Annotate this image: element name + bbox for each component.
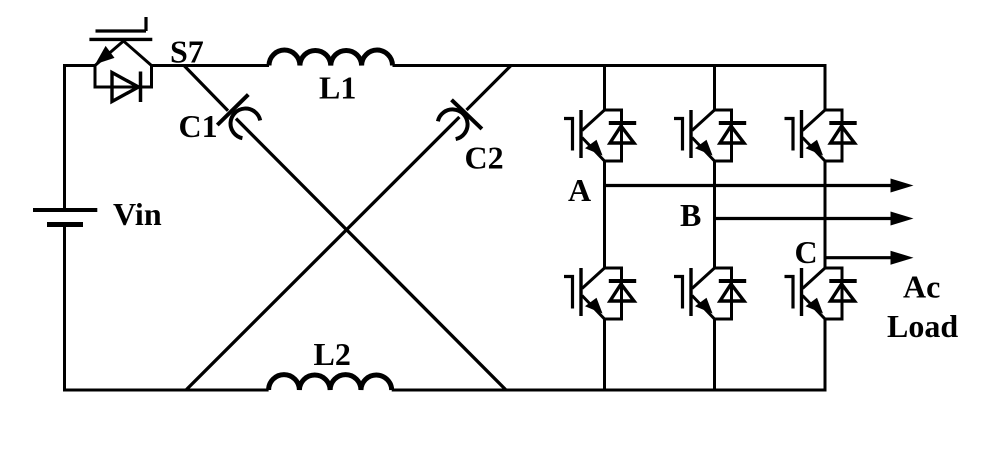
svg-text:B: B <box>680 197 701 233</box>
switch S7 channel bar <box>89 38 152 41</box>
wire bottom rail right <box>392 389 826 392</box>
IGBT S4 collector lead <box>692 268 715 289</box>
diode of S2 triangle <box>610 284 634 301</box>
wire bridge leg 1 <box>603 64 606 392</box>
wire diagonal D2 upper segment (top rail to C2) <box>467 66 512 111</box>
diode of S2 cathode bar <box>609 279 636 283</box>
wire bottom rail left <box>63 389 269 392</box>
arrowhead phase B <box>891 212 914 226</box>
wire bridge leg 2 <box>713 64 716 392</box>
svg-text:A: A <box>568 172 591 208</box>
IGBT S6 emitter arrow <box>806 298 824 314</box>
IGBT S4 body wires (jog to diode branch) <box>715 268 732 319</box>
svg-text:Vin: Vin <box>113 196 162 232</box>
IGBT S2 channel bar <box>579 268 582 316</box>
arrowhead phase C <box>891 251 914 265</box>
diode of S4 triangle <box>720 284 744 301</box>
switch S7 diode cathode bar <box>139 72 143 103</box>
IGBT S4 emitter lead <box>692 296 715 320</box>
diode of S5 triangle <box>831 126 855 143</box>
capacitor C2 curved plate <box>438 109 468 139</box>
wire top rail L1 to bridge <box>393 64 826 67</box>
IGBT S6 collector lead <box>803 268 826 289</box>
diode of S4 cathode bar <box>719 279 746 283</box>
battery Vin short plate <box>47 222 83 227</box>
wire top rail S7 to L1 <box>152 64 270 67</box>
IGBT S1 emitter arrow <box>585 140 603 156</box>
wire diagonal D2 lower segment (C2 to bottom rail) <box>186 117 459 390</box>
IGBT S5 gate lead and bar <box>785 119 794 151</box>
capacitor C2 straight plate <box>452 100 482 129</box>
capacitor C1 straight plate <box>217 95 248 125</box>
arrowhead phase A <box>891 179 914 193</box>
switch S7 emitter arrow <box>95 46 114 64</box>
wire top rail left stub <box>64 64 95 67</box>
IGBT S5 channel bar <box>800 110 803 158</box>
IGBT S3 emitter lead <box>692 138 715 162</box>
inductor L1 <box>269 50 393 65</box>
wire phase A output <box>605 184 893 187</box>
diode of S3 cathode bar <box>719 121 746 125</box>
switch S7 tent (collector/emitter leads) <box>95 41 152 66</box>
IGBT S3 channel bar <box>689 110 692 158</box>
svg-text:L2: L2 <box>314 336 351 372</box>
svg-text:C2: C2 <box>465 140 504 176</box>
IGBT S1 channel bar <box>579 110 582 158</box>
wire left vertical lower (Vin -) <box>63 227 66 392</box>
diode of S6 triangle <box>831 284 855 301</box>
wire diagonal D1 upper segment (S7 node to C1) <box>184 66 228 111</box>
IGBT S4 channel bar <box>689 268 692 316</box>
battery Vin long plate <box>33 208 97 212</box>
IGBT S2 emitter lead <box>582 296 605 320</box>
IGBT S5 emitter arrow <box>806 140 824 156</box>
switch S7 diode triangle <box>112 73 139 102</box>
IGBT S3 collector lead <box>692 110 715 131</box>
IGBT S1 emitter lead <box>582 138 605 162</box>
wire bridge leg 3 <box>824 64 827 392</box>
IGBT S2 body wires (jog to diode branch) <box>605 268 622 319</box>
IGBT S4 gate lead and bar <box>674 277 683 309</box>
wire phase C output <box>825 256 892 259</box>
IGBT S5 body wires (jog to diode branch) <box>825 110 842 161</box>
wire phase B output <box>715 217 893 220</box>
capacitor C1 curved plate <box>231 109 261 139</box>
svg-text:L1: L1 <box>319 70 356 106</box>
switch S7 gate bar and lead <box>96 17 147 31</box>
IGBT S1 body wires (jog to diode branch) <box>605 110 622 161</box>
switch S7 diode loop wire <box>95 64 152 87</box>
wire diagonal D1 lower segment (C1 to bottom rail) <box>236 119 506 390</box>
svg-text:C: C <box>795 234 818 270</box>
IGBT S6 emitter lead <box>803 296 826 320</box>
IGBT S1 gate lead and bar <box>564 119 573 151</box>
IGBT S1 collector lead <box>582 110 605 131</box>
diode of S1 cathode bar <box>609 121 636 125</box>
IGBT S2 emitter arrow <box>585 298 603 314</box>
inductor L2 <box>269 375 392 390</box>
IGBT S3 gate lead and bar <box>674 119 683 151</box>
IGBT S3 emitter arrow <box>695 140 713 156</box>
IGBT S6 channel bar <box>800 268 803 316</box>
diode of S5 cathode bar <box>829 121 856 125</box>
diode of S3 triangle <box>720 126 744 143</box>
svg-text:C1: C1 <box>179 108 218 144</box>
IGBT S5 emitter lead <box>803 138 826 162</box>
IGBT S3 body wires (jog to diode branch) <box>715 110 732 161</box>
diode of S6 cathode bar <box>829 279 856 283</box>
diode of S1 triangle <box>610 126 634 143</box>
svg-text:Load: Load <box>887 308 958 344</box>
IGBT S4 emitter arrow <box>695 298 713 314</box>
IGBT S2 gate lead and bar <box>564 277 573 309</box>
IGBT S6 gate lead and bar <box>785 277 794 309</box>
IGBT S6 body wires (jog to diode branch) <box>825 268 842 319</box>
IGBT S2 collector lead <box>582 268 605 289</box>
wire left vertical upper (Vin +) <box>63 64 66 208</box>
svg-text:Ac: Ac <box>903 269 940 305</box>
IGBT S5 collector lead <box>803 110 826 131</box>
svg-text:S7: S7 <box>170 34 204 70</box>
